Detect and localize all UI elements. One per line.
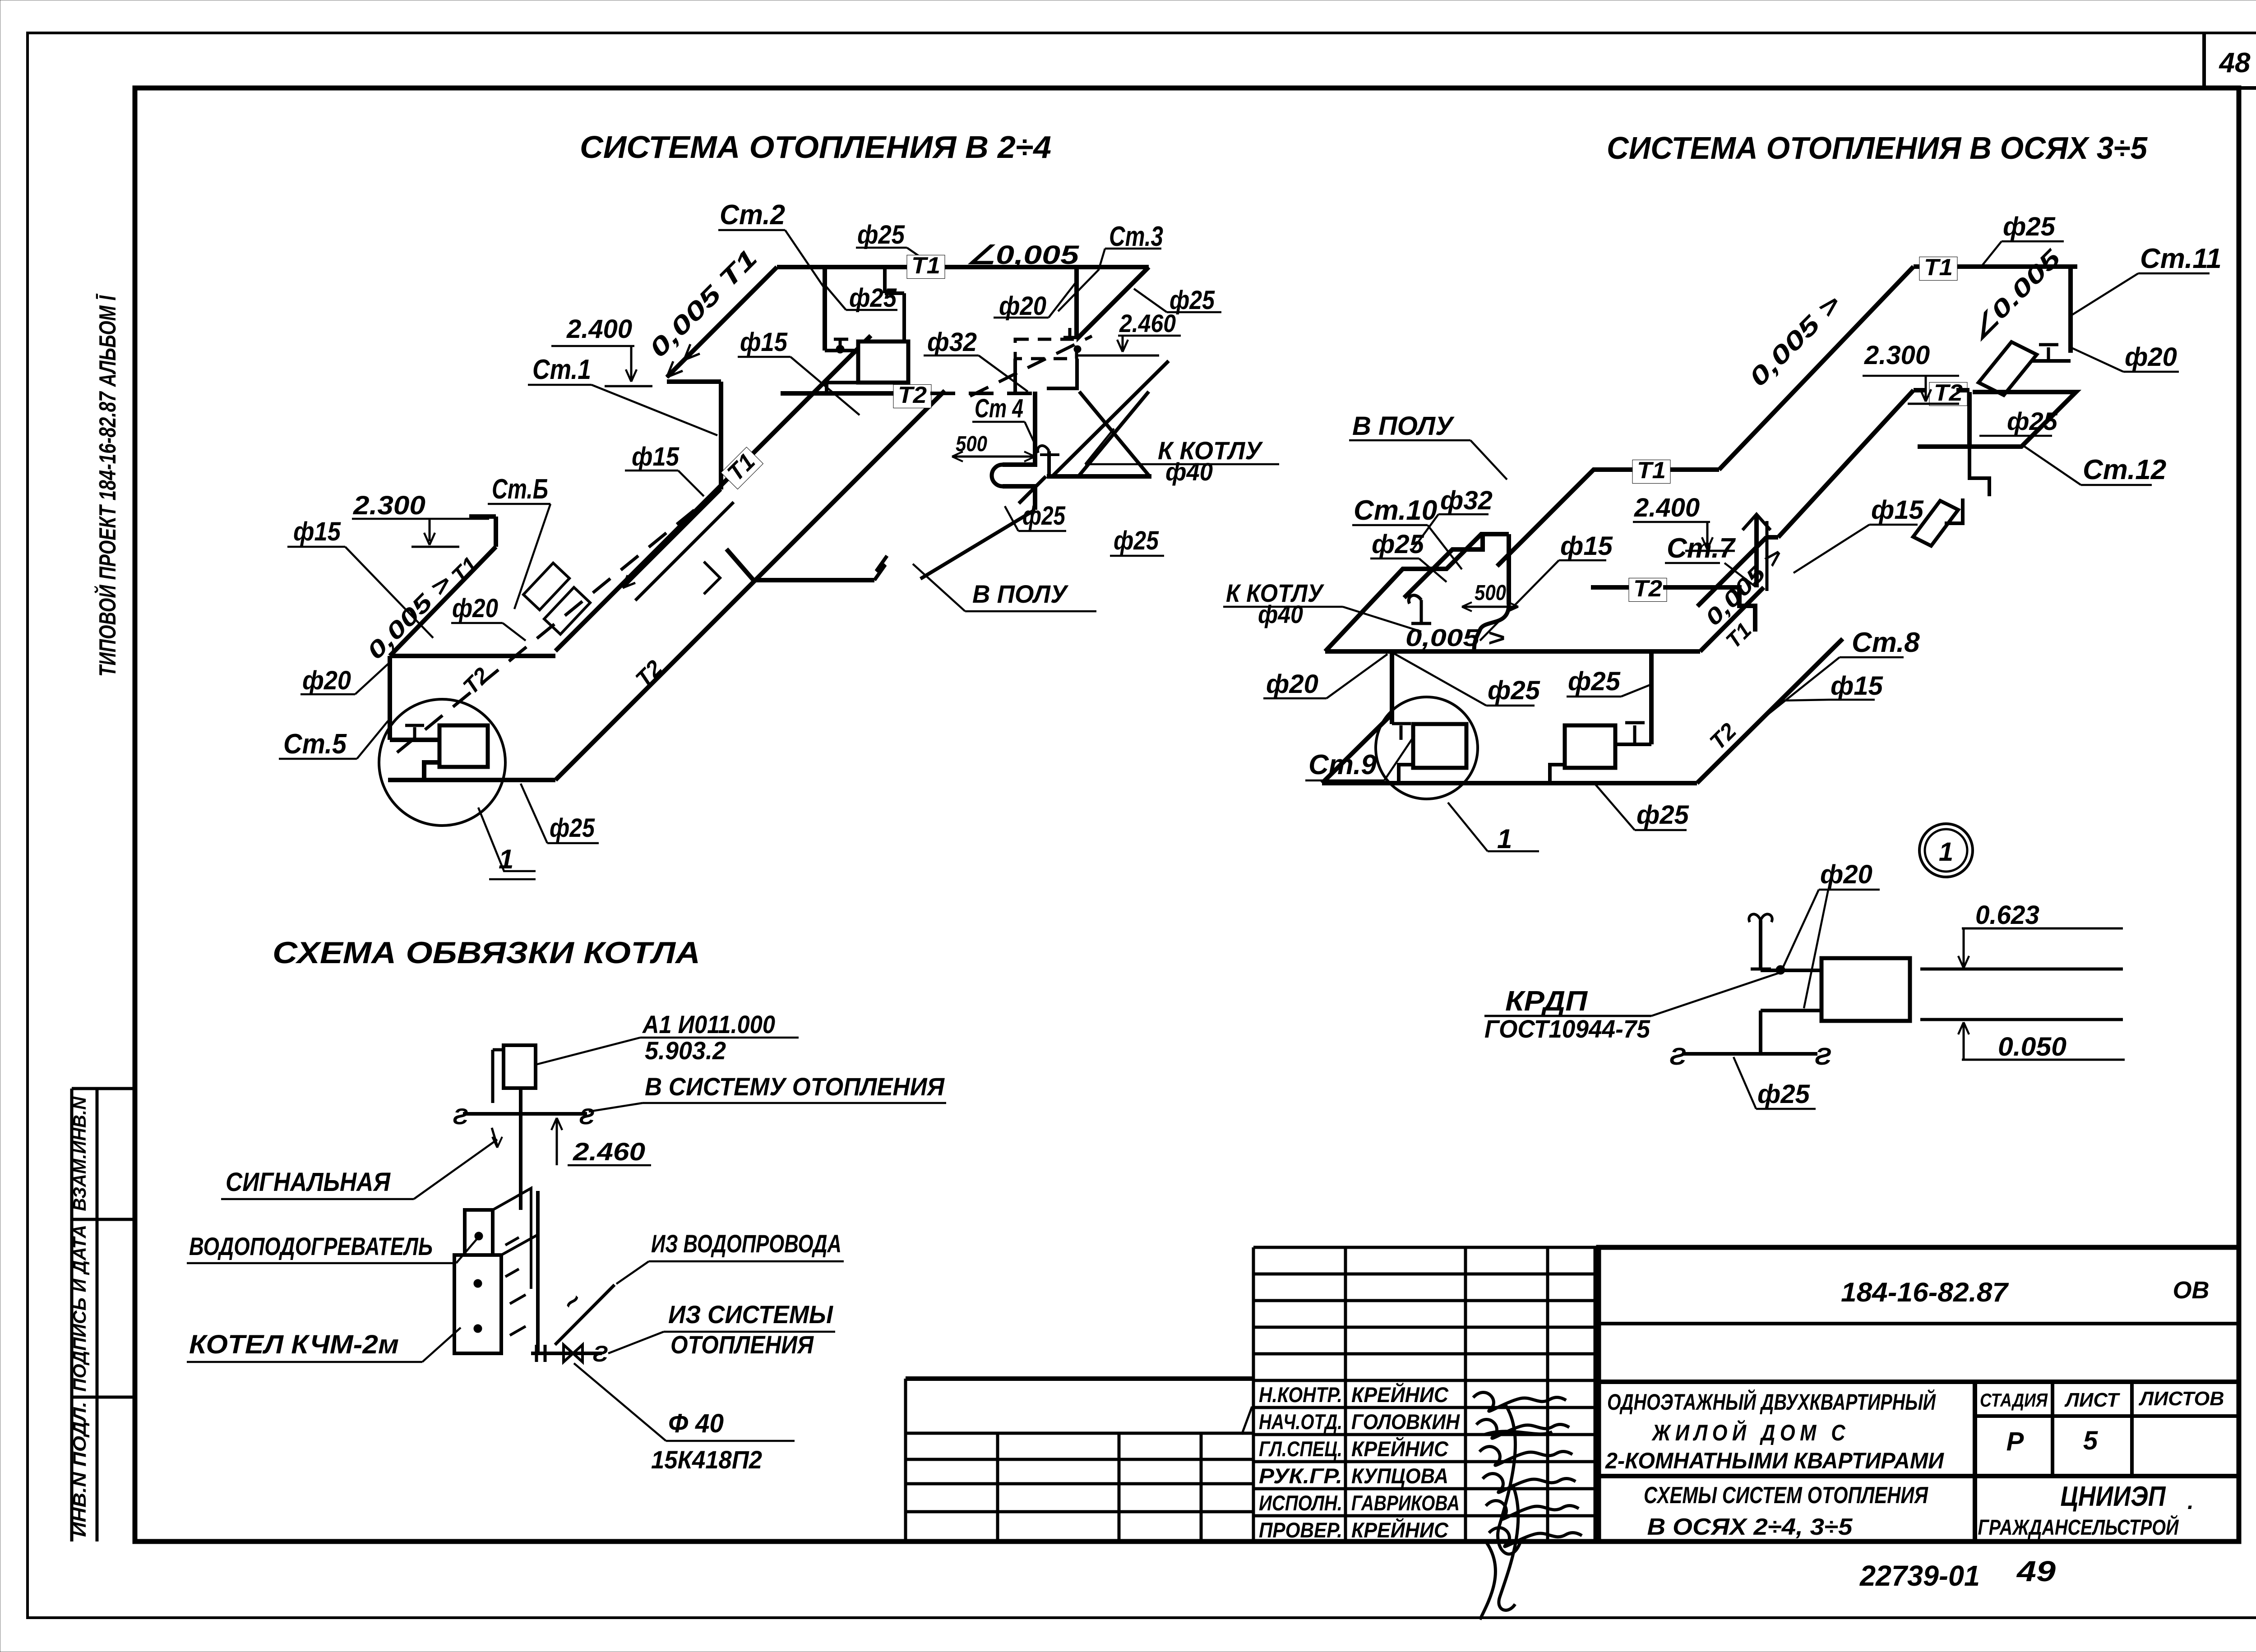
svg-text:Н.КОНТР.: Н.КОНТР.: [1259, 1383, 1342, 1407]
svg-text:2.400: 2.400: [566, 314, 632, 344]
svg-text:Т2: Т2: [1934, 380, 1963, 406]
svg-text:15К418П2: 15К418П2: [651, 1445, 762, 1474]
svg-text:ф15: ф15: [293, 517, 341, 546]
svg-text:Ст.10: Ст.10: [1354, 495, 1437, 526]
svg-text:ф25: ф25: [857, 220, 905, 249]
svg-text:Ст.8: Ст.8: [1852, 627, 1920, 658]
svg-text:.: .: [2187, 1489, 2194, 1514]
svg-text:1: 1: [499, 844, 513, 874]
svg-text:СИГНАЛЬНАЯ: СИГНАЛЬНАЯ: [226, 1167, 391, 1197]
svg-text:ф25: ф25: [550, 813, 595, 843]
svg-text:ф25: ф25: [1114, 526, 1159, 555]
svg-text:∠0,005: ∠0,005: [966, 240, 1079, 270]
svg-text:ф20: ф20: [999, 291, 1046, 321]
svg-text:ф25: ф25: [1022, 501, 1066, 531]
svg-text:Ƨ: Ƨ: [592, 1341, 608, 1366]
svg-text:Ст.1: Ст.1: [532, 354, 591, 385]
svg-text:ф15: ф15: [1871, 495, 1924, 525]
svg-text:ГЛ.СПЕЦ.: ГЛ.СПЕЦ.: [1259, 1437, 1342, 1461]
svg-text:1: 1: [1497, 824, 1512, 854]
svg-text:ф20: ф20: [302, 666, 351, 695]
svg-text:ф25: ф25: [2003, 212, 2056, 241]
svg-text:КОТЕЛ КЧМ-2м: КОТЕЛ КЧМ-2м: [189, 1330, 399, 1359]
svg-text:ОДНОЭТАЖНЫЙ ДВУХКВАРТИРНЫЙ: ОДНОЭТАЖНЫЙ ДВУХКВАРТИРНЫЙ: [1607, 1389, 1936, 1415]
svg-text:48: 48: [2219, 47, 2251, 78]
svg-text:СИСТЕМА ОТОПЛЕНИЯ В 2÷4: СИСТЕМА ОТОПЛЕНИЯ В 2÷4: [580, 129, 1051, 165]
svg-text:5: 5: [2083, 1426, 2098, 1455]
svg-text:Ст.12: Ст.12: [2083, 454, 2166, 485]
svg-text:Ст.3: Ст.3: [1109, 221, 1163, 252]
svg-text:ЛИСТ: ЛИСТ: [2064, 1389, 2120, 1411]
svg-text:0,005 >: 0,005 >: [1405, 624, 1505, 651]
svg-text:2.460: 2.460: [573, 1137, 645, 1166]
svg-text:КУПЦОВА: КУПЦОВА: [1351, 1464, 1448, 1488]
svg-text:СХЕМА ОБВЯЗКИ КОТЛА: СХЕМА ОБВЯЗКИ КОТЛА: [273, 936, 700, 970]
svg-text:Ст.2: Ст.2: [720, 199, 785, 231]
svg-text:ТИПОВОЙ ПРОЕКТ 184-16-82.8: ТИПОВОЙ ПРОЕКТ 184-16-82.87 АЛЬБОМ Ī: [94, 293, 121, 677]
svg-text:ЦНИИЭП: ЦНИИЭП: [2061, 1481, 2166, 1512]
svg-text:КРЕЙНИС: КРЕЙНИС: [1351, 1437, 1449, 1461]
svg-text:ИНВ.N ПОДЛ.: ИНВ.N ПОДЛ.: [70, 1402, 90, 1537]
svg-text:ф15: ф15: [740, 328, 788, 357]
svg-text:ф20: ф20: [2125, 342, 2177, 372]
svg-text:ИЗ СИСТЕМЫ: ИЗ СИСТЕМЫ: [668, 1300, 833, 1329]
svg-text:Ст.11: Ст.11: [2140, 243, 2222, 274]
svg-text:ф25: ф25: [849, 283, 897, 313]
svg-text:ф25: ф25: [1372, 530, 1424, 559]
svg-text:СИСТЕМА ОТОПЛЕНИЯ В ОСЯХ 3÷5: СИСТЕМА ОТОПЛЕНИЯ В ОСЯХ 3÷5: [1607, 130, 2148, 166]
svg-text:ф25: ф25: [1568, 667, 1621, 696]
svg-text:Ƨ: Ƨ: [1669, 1043, 1686, 1070]
svg-text:2.300: 2.300: [353, 491, 425, 520]
svg-text:ГОЛОВКИН: ГОЛОВКИН: [1351, 1410, 1460, 1434]
svg-text:22739-01: 22739-01: [1859, 1560, 1980, 1592]
svg-text:Т1: Т1: [1637, 457, 1666, 484]
svg-text:ГОСТ10944-75: ГОСТ10944-75: [1484, 1015, 1650, 1043]
svg-text:ВОДОПОДОГРЕВАТЕЛЬ: ВОДОПОДОГРЕВАТЕЛЬ: [189, 1232, 433, 1260]
svg-text:Т2: Т2: [1633, 576, 1662, 602]
svg-text:49: 49: [2016, 1555, 2056, 1587]
svg-text:ГРАЖДАНСЕЛЬСТРОЙ: ГРАЖДАНСЕЛЬСТРОЙ: [1978, 1515, 2179, 1540]
svg-text:5.903.2: 5.903.2: [645, 1036, 726, 1065]
svg-text:Ƨ: Ƨ: [1815, 1043, 1831, 1070]
svg-text:2-КОМНАТНЫМИ КВАРТИРАМИ: 2-КОМНАТНЫМИ КВАРТИРАМИ: [1605, 1448, 1944, 1473]
svg-text:ф15: ф15: [1831, 671, 1883, 701]
svg-text:ЖИЛОЙ ДОМ С: ЖИЛОЙ ДОМ С: [1651, 1420, 1850, 1445]
svg-text:А1 И011.000: А1 И011.000: [642, 1010, 775, 1038]
svg-text:ф25: ф25: [1488, 676, 1540, 705]
svg-text:ПОДПИСЬ И ДАТА: ПОДПИСЬ И ДАТА: [70, 1225, 90, 1392]
svg-text:ЛИСТОВ: ЛИСТОВ: [2138, 1388, 2224, 1410]
svg-text:Ст.Б: Ст.Б: [492, 474, 548, 505]
svg-text:2.460: 2.460: [1119, 309, 1176, 337]
svg-text:Т1: Т1: [1924, 254, 1953, 281]
svg-text:Р: Р: [2006, 1427, 2024, 1456]
svg-text:ф15: ф15: [632, 442, 680, 471]
svg-text:Ст.7: Ст.7: [1667, 533, 1736, 564]
svg-text:1: 1: [1939, 837, 1953, 867]
svg-text:ИЗ ВОДОПРОВОДА: ИЗ ВОДОПРОВОДА: [651, 1229, 841, 1258]
svg-text:В ПОЛУ: В ПОЛУ: [1352, 411, 1455, 441]
svg-text:ф25: ф25: [2007, 407, 2058, 435]
svg-text:Т2: Т2: [898, 382, 927, 408]
svg-text:Ст.5: Ст.5: [283, 729, 347, 760]
svg-text:184-16-82.87: 184-16-82.87: [1841, 1277, 2009, 1307]
svg-text:ф20: ф20: [1820, 860, 1872, 889]
svg-text:В СИСТЕМУ ОТОПЛЕНИЯ: В СИСТЕМУ ОТОПЛЕНИЯ: [645, 1072, 945, 1101]
svg-text:ф15: ф15: [1560, 531, 1613, 561]
svg-text:НАЧ.ОТД.: НАЧ.ОТД.: [1259, 1410, 1342, 1434]
svg-text:ОВ: ОВ: [2173, 1277, 2210, 1304]
svg-text:500: 500: [1475, 581, 1506, 605]
svg-text:Ƨ: Ƨ: [453, 1104, 468, 1129]
svg-text:ГАВРИКОВА: ГАВРИКОВА: [1351, 1491, 1460, 1515]
svg-text:ВЗАМ.ИНВ.N: ВЗАМ.ИНВ.N: [70, 1096, 90, 1211]
svg-text:ф40: ф40: [1258, 600, 1303, 628]
svg-text:ф25: ф25: [1170, 286, 1215, 315]
svg-text:СТАДИЯ: СТАДИЯ: [1980, 1389, 2048, 1411]
svg-text:ИСПОЛН.: ИСПОЛН.: [1259, 1491, 1342, 1515]
svg-text:Ст 4: Ст 4: [975, 394, 1023, 423]
svg-text:ф40: ф40: [1165, 457, 1213, 486]
svg-text:ф25: ф25: [1637, 800, 1689, 830]
svg-text:Ф 40: Ф 40: [668, 1409, 724, 1438]
svg-text:ф20: ф20: [452, 594, 498, 623]
svg-text:КРДП: КРДП: [1505, 986, 1588, 1017]
svg-text:ф32: ф32: [1440, 486, 1493, 515]
svg-text:ф20: ф20: [1266, 669, 1318, 699]
svg-text:ОТОПЛЕНИЯ: ОТОПЛЕНИЯ: [670, 1330, 814, 1359]
svg-text:Т1: Т1: [911, 253, 940, 279]
svg-text:ПРОВЕР.: ПРОВЕР.: [1259, 1518, 1342, 1542]
svg-text:СХЕМЫ СИСТЕМ ОТОПЛЕНИЯ: СХЕМЫ СИСТЕМ ОТОПЛЕНИЯ: [1644, 1482, 1928, 1509]
svg-text:ф32: ф32: [927, 328, 977, 357]
svg-text:РУК.ГР.: РУК.ГР.: [1259, 1464, 1342, 1488]
svg-text:КРЕЙНИС: КРЕЙНИС: [1351, 1518, 1449, 1542]
svg-text:0.623: 0.623: [1975, 900, 2039, 930]
svg-text:ф25: ф25: [1757, 1080, 1810, 1109]
svg-text:В ПОЛУ: В ПОЛУ: [972, 580, 1069, 608]
svg-text:2.300: 2.300: [1864, 341, 1930, 370]
svg-text:0.050: 0.050: [1998, 1032, 2066, 1061]
svg-text:В ОСЯХ 2÷4, 3÷5: В ОСЯХ 2÷4, 3÷5: [1647, 1514, 1853, 1540]
svg-text:КРЕЙНИС: КРЕЙНИС: [1351, 1383, 1449, 1407]
svg-text:500: 500: [956, 432, 987, 456]
svg-text:Ст.9: Ст.9: [1308, 749, 1377, 780]
svg-text:Ƨ: Ƨ: [579, 1104, 594, 1129]
svg-text:2.400: 2.400: [1634, 493, 1700, 522]
